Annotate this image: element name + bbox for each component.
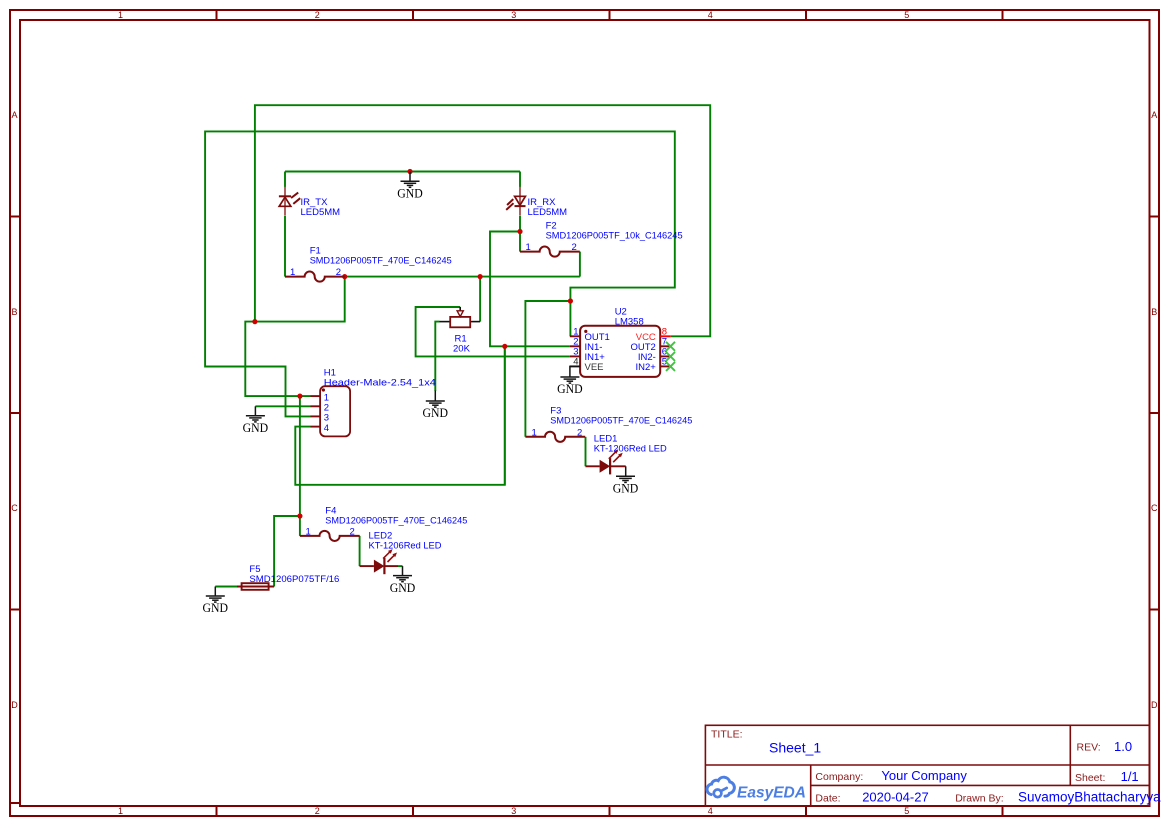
ground GND U2 VEE: [557, 366, 583, 396]
EasyEDA logo: [707, 777, 806, 801]
pin 5 IN2+: [660, 365, 671, 367]
svg-text:GND: GND: [203, 601, 229, 615]
ground GND H1 pin2: [243, 406, 269, 435]
svg-text:2: 2: [315, 10, 320, 20]
wire IR_RX top lead: [519, 172, 521, 188]
svg-text:2: 2: [315, 806, 320, 816]
wire F5 to GND: [215, 586, 237, 588]
svg-text:SMD1206P005TF_470E_C146245: SMD1206P005TF_470E_C146245: [550, 416, 692, 427]
wire VCC node to F1 pin2: [255, 277, 345, 322]
svg-text:SMD1206P075TF/16: SMD1206P075TF/16: [249, 574, 339, 585]
svg-text:VEE: VEE: [585, 362, 604, 373]
svg-text:IN2+: IN2+: [635, 362, 656, 373]
wire F3 to LED1: [585, 437, 587, 467]
svg-text:Date:: Date:: [815, 792, 840, 804]
fuse F4: [300, 527, 360, 541]
svg-text:5: 5: [904, 10, 909, 20]
fuse F5: [237, 583, 274, 590]
svg-text:1: 1: [532, 427, 537, 438]
svg-text:1: 1: [526, 242, 531, 253]
wire IR_RX cathode to F2: [519, 216, 521, 252]
junction node IN1-: [502, 344, 507, 349]
wire IR_TX top lead: [284, 172, 286, 188]
label R1: [453, 334, 471, 355]
wire LED2 to GND stub: [398, 565, 403, 567]
svg-text:1: 1: [118, 10, 123, 20]
svg-text:SuvamoyBhattacharyya: SuvamoyBhattacharyya: [1018, 789, 1161, 804]
svg-text:1: 1: [290, 267, 295, 278]
svg-text:LM358: LM358: [615, 317, 644, 328]
wire IR_RX junction to IN1-: [490, 232, 570, 347]
svg-text:4: 4: [708, 10, 713, 20]
label LED1: [594, 434, 667, 455]
ground GND LED1: [613, 466, 639, 495]
svg-text:C: C: [11, 503, 18, 513]
svg-text:LED5MM: LED5MM: [528, 207, 568, 218]
svg-text:4: 4: [324, 423, 329, 434]
label F4: [325, 506, 467, 527]
svg-text:5: 5: [904, 806, 909, 816]
wire R1 pin1 to GND: [435, 322, 439, 391]
junction node R1 top feed: [478, 274, 483, 279]
svg-text:Your Company: Your Company: [881, 768, 967, 783]
svg-text:2: 2: [572, 242, 577, 253]
svg-text:GND: GND: [423, 406, 449, 420]
svg-text:C: C: [1151, 503, 1158, 513]
svg-text:GND: GND: [390, 581, 416, 595]
svg-text:SMD1206P005TF_10k_C146245: SMD1206P005TF_10k_C146245: [546, 231, 683, 242]
svg-text:GND: GND: [243, 421, 269, 435]
pin 8 VCC: [660, 335, 671, 337]
op-amp U2: [570, 326, 675, 377]
title block: [705, 725, 1161, 806]
svg-text:A: A: [11, 110, 17, 120]
svg-text:1/1: 1/1: [1121, 769, 1139, 784]
svg-text:Drawn By:: Drawn By:: [955, 792, 1003, 804]
wire IN1- junction drop: [504, 346, 506, 485]
svg-text:B: B: [11, 307, 17, 317]
wire R1 wiper to IN1+: [416, 307, 570, 356]
svg-text:4: 4: [708, 806, 713, 816]
svg-text:A: A: [1151, 110, 1157, 120]
wire VCC top loop: [255, 105, 710, 336]
svg-text:KT-1206Red LED: KT-1206Red LED: [369, 541, 442, 552]
wire OUT1 stub: [569, 301, 571, 336]
label IR_TX: [301, 197, 341, 218]
wire F4 node down: [299, 516, 301, 536]
svg-text:SMD1206P005TF_470E_C146245: SMD1206P005TF_470E_C146245: [310, 256, 452, 267]
svg-text:SMD1206P005TF_470E_C146245: SMD1206P005TF_470E_C146245: [325, 516, 467, 527]
wire OUT1 to F3: [525, 301, 570, 437]
svg-text:REV:: REV:: [1077, 742, 1101, 754]
wire F1 out to F2 out: [345, 276, 580, 278]
wire F2 pin2 drop: [579, 252, 581, 277]
label U2: [615, 307, 644, 328]
pin 7 OUT2: [660, 345, 671, 347]
svg-text:2020-04-27: 2020-04-27: [862, 789, 929, 804]
label IR_RX: [528, 197, 568, 218]
svg-text:1.0: 1.0: [1114, 739, 1132, 754]
fuse F3: [525, 427, 585, 441]
wire VCC node to H1 pin1: [245, 322, 310, 397]
wire OUT1 to H1 pin3: [205, 131, 675, 416]
svg-text:Company:: Company:: [815, 771, 863, 783]
wire IR_TX bottom to F1: [284, 216, 286, 277]
LED LED2: [360, 549, 398, 574]
wire top LED bus: [285, 171, 520, 173]
diode IR_RX: [506, 187, 525, 216]
label F5: [249, 564, 339, 585]
junction node VCC left: [252, 319, 257, 324]
wire H1 pin1 down to F4: [299, 396, 301, 516]
fuse F2: [520, 242, 580, 256]
label LED2: [369, 531, 442, 552]
svg-text:1: 1: [118, 806, 123, 816]
wire F4 to LED2: [359, 536, 361, 566]
svg-text:2: 2: [336, 267, 341, 278]
svg-text:D: D: [11, 700, 18, 710]
fuse F1: [285, 267, 345, 281]
svg-text:20K: 20K: [453, 344, 471, 355]
pin 3 IN1+: [570, 355, 580, 357]
svg-text:Header-Male-2.54_1x4: Header-Male-2.54_1x4: [324, 378, 436, 389]
junction node IR_RX: [517, 229, 522, 234]
pin 4 VEE: [570, 365, 580, 367]
svg-text:GND: GND: [397, 186, 423, 200]
header H1: [311, 386, 351, 436]
junction node F4: [297, 513, 302, 518]
junction node top GND: [407, 169, 412, 174]
svg-text:3: 3: [511, 10, 516, 20]
pin 1 OUT1: [570, 335, 580, 337]
wire F1F2 node to R1 pin2: [479, 277, 481, 322]
wire F4 node left to F5: [274, 516, 300, 587]
svg-text:1: 1: [306, 527, 311, 538]
wire H1 pin2 to GND: [255, 405, 310, 407]
no-connect pin 5: [666, 362, 675, 371]
svg-text:2: 2: [577, 427, 582, 438]
ground GND F5: [203, 587, 229, 616]
svg-text:3: 3: [511, 806, 516, 816]
junction node H1 pin1: [297, 394, 302, 399]
no-connect pin 7: [666, 342, 675, 351]
svg-text:Sheet:: Sheet:: [1075, 772, 1105, 784]
label H1: [324, 368, 436, 389]
LED LED1: [586, 449, 626, 474]
svg-text:GND: GND: [613, 482, 639, 496]
label F1: [310, 246, 452, 267]
svg-text:GND: GND: [557, 382, 583, 396]
pin 6 IN2-: [660, 355, 671, 357]
ground GND R1: [423, 391, 449, 421]
label F3: [550, 406, 692, 427]
junction node F1-F2: [342, 274, 347, 279]
diode IR_TX: [279, 187, 300, 216]
ground GND top: [397, 172, 423, 201]
svg-text:2: 2: [350, 527, 355, 538]
svg-text:KT-1206Red LED: KT-1206Red LED: [594, 444, 667, 455]
pin 2 IN1-: [570, 345, 580, 347]
svg-text:LED5MM: LED5MM: [301, 207, 341, 218]
wire H1 pin4 to IN1- node: [295, 346, 505, 485]
svg-text:EasyEDA: EasyEDA: [737, 785, 806, 802]
svg-text:B: B: [1151, 307, 1157, 317]
ground GND LED2: [390, 566, 416, 595]
svg-text:D: D: [1151, 700, 1158, 710]
potentiometer R1: [440, 307, 481, 327]
svg-text:TITLE:: TITLE:: [711, 729, 743, 741]
junction node OUT1: [568, 298, 573, 303]
svg-text:Sheet_1: Sheet_1: [769, 740, 821, 756]
no-connect pin 6: [666, 352, 675, 361]
label F2: [546, 221, 683, 242]
